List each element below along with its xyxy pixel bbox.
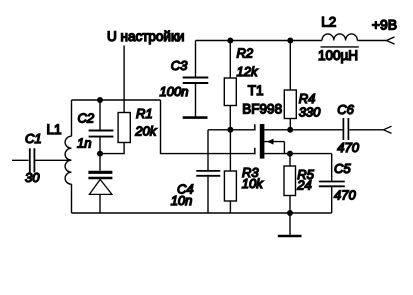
svg-text:R2: R2 bbox=[237, 46, 254, 61]
svg-text:U настройки: U настройки bbox=[107, 29, 184, 44]
wire C6 to output bbox=[349, 129, 383, 131]
wire bottom rail bbox=[72, 212, 332, 214]
svg-text:C1: C1 bbox=[25, 131, 42, 146]
wire top supply rail bbox=[196, 40, 323, 42]
node source/R5 bbox=[287, 151, 293, 157]
svg-text:L1: L1 bbox=[47, 122, 62, 137]
svg-text:+9B: +9B bbox=[372, 16, 397, 32]
inductor L2 100uH bbox=[318, 14, 359, 63]
node gate2/R2/R3/C4 bbox=[227, 127, 233, 133]
svg-text:L2: L2 bbox=[321, 14, 336, 29]
node rail/R2 bbox=[227, 38, 233, 44]
wire tank top rail bbox=[72, 99, 161, 101]
wire drain to C6 bbox=[264, 129, 342, 131]
svg-text:12k: 12k bbox=[237, 64, 259, 79]
capacitor C5 470 bbox=[319, 154, 357, 213]
svg-text:C3: C3 bbox=[171, 58, 188, 73]
node rail/R4 bbox=[287, 38, 293, 44]
svg-text:30: 30 bbox=[25, 170, 40, 185]
svg-text:C2: C2 bbox=[78, 111, 95, 126]
svg-text:C6: C6 bbox=[337, 102, 354, 117]
resistor R3 10k bbox=[224, 130, 264, 213]
wire tank top to gate1 bbox=[161, 100, 255, 154]
wire C1 to L1 tap bbox=[35, 159, 71, 161]
inductor L1 bbox=[47, 100, 72, 213]
resistor R4 330 bbox=[284, 41, 321, 130]
wire input left bbox=[12, 159, 29, 161]
terminal +9B bbox=[372, 16, 397, 44]
svg-text:470: 470 bbox=[334, 188, 356, 203]
transistor T1 BF998 bbox=[242, 83, 284, 159]
node drain/R4 bbox=[287, 127, 293, 133]
svg-text:R1: R1 bbox=[136, 106, 153, 121]
svg-text:10n: 10n bbox=[171, 193, 193, 208]
capacitor C3 100n bbox=[160, 41, 209, 117]
svg-text:100µH: 100µH bbox=[318, 48, 358, 63]
svg-text:10k: 10k bbox=[242, 176, 264, 191]
resistor R2 12k bbox=[224, 41, 259, 130]
resistor R5 24 bbox=[284, 154, 315, 213]
terminal output bbox=[384, 126, 392, 133]
varicap diode VD1 bbox=[88, 154, 112, 213]
svg-text:T1: T1 bbox=[248, 83, 264, 98]
node tank top / C2 bbox=[97, 97, 103, 103]
svg-text:24: 24 bbox=[296, 178, 311, 193]
node ground/R5 bbox=[287, 210, 293, 216]
svg-text:BF998: BF998 bbox=[242, 101, 282, 116]
svg-text:1n: 1n bbox=[77, 136, 91, 151]
capacitor C1 bbox=[25, 131, 42, 185]
wire R1 bottom to varicap node bbox=[100, 143, 124, 154]
wire L2 to +9B bbox=[357, 40, 386, 42]
svg-text:330: 330 bbox=[299, 104, 321, 119]
wire source rail bbox=[264, 153, 331, 155]
ground C3 bbox=[183, 116, 208, 119]
svg-text:C5: C5 bbox=[334, 161, 351, 176]
capacitor C6 470 bbox=[337, 102, 359, 155]
resistor R1 20k bbox=[118, 106, 158, 142]
svg-text:470: 470 bbox=[337, 140, 359, 155]
svg-text:100n: 100n bbox=[160, 84, 189, 99]
svg-text:20k: 20k bbox=[134, 123, 157, 138]
ground main bbox=[278, 213, 302, 236]
capacitor C4 10n bbox=[171, 130, 221, 213]
wire gate2 node to C4 bbox=[208, 129, 255, 131]
capacitor C2 bbox=[77, 100, 113, 154]
wire U настройки to R1 bbox=[123, 46, 125, 113]
node C2/varicap/R1 bbox=[97, 151, 103, 157]
